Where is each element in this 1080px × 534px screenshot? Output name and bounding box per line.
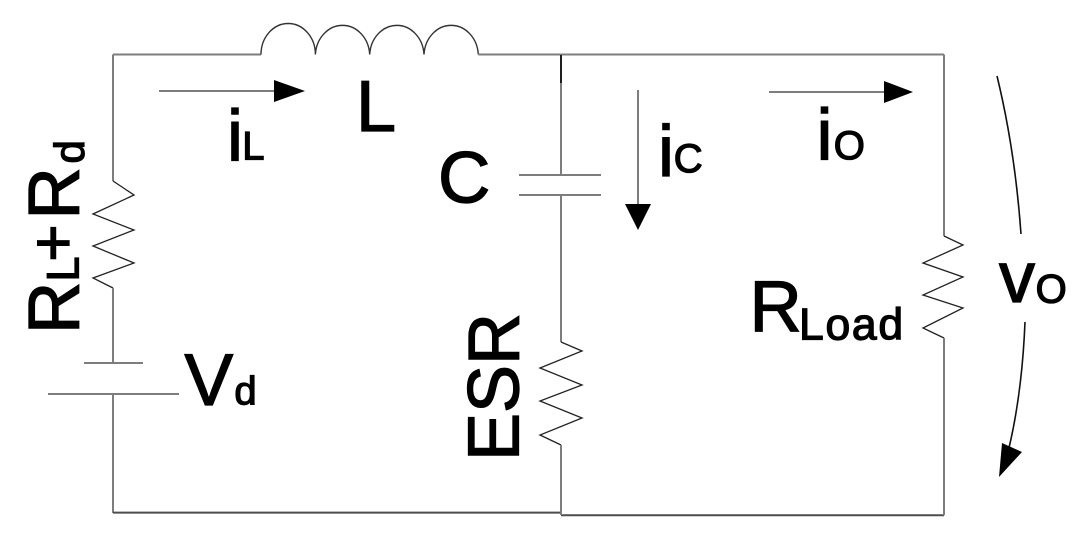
current arrow iC shaft (637, 90, 639, 206)
wire left vertical lower (112, 394, 114, 513)
label RL+Rd rotated (14, 140, 95, 334)
wire left vertical upper (112, 55, 114, 182)
svg-text:i: i (817, 96, 833, 176)
current arrow iO head (884, 81, 913, 103)
svg-text:L: L (356, 67, 396, 147)
resistor RLoad zigzag (923, 236, 963, 338)
svg-text:d: d (234, 370, 256, 414)
svg-text:C: C (438, 138, 490, 219)
current arrow iL head (274, 80, 305, 102)
wire middle vertical (cap to ESR) (560, 195, 562, 342)
wire bottom horizontal right (561, 514, 944, 516)
wire right vertical upper (943, 55, 945, 237)
svg-text:ESR: ESR (455, 313, 535, 461)
current arrow iL shaft (159, 90, 276, 92)
wire middle vertical upper (to capacitor) (560, 55, 562, 176)
svg-text:V: V (185, 340, 234, 421)
battery Vd bottom plate (48, 393, 179, 395)
wire middle vertical upper dark segment (560, 55, 562, 83)
current arrow iC head (625, 204, 651, 230)
resistor ESR zigzag (540, 342, 582, 445)
wire left vertical middle (112, 288, 114, 363)
svg-text:i: i (227, 97, 243, 177)
svg-text:d: d (46, 140, 93, 163)
svg-text:O: O (1036, 268, 1067, 312)
svg-text:L: L (242, 125, 264, 169)
svg-text:Load: Load (799, 301, 905, 350)
svg-text:C: C (674, 137, 703, 181)
vO polarity curve lower with arrow (1008, 322, 1025, 452)
svg-text:R: R (14, 167, 95, 219)
wire right vertical lower (943, 338, 945, 515)
vO polarity curve upper (997, 76, 1021, 234)
svg-text:O: O (834, 124, 865, 168)
battery Vd top plate (84, 362, 143, 364)
wire middle vertical lower (560, 445, 562, 515)
svg-text:i: i (658, 112, 674, 192)
svg-text:R: R (14, 282, 95, 334)
wire top-right horizontal (478, 54, 944, 56)
wire bottom horizontal left (113, 512, 562, 514)
vO arrowhead (999, 443, 1022, 477)
wire top-left horizontal (113, 54, 261, 56)
current arrow iO shaft (769, 91, 886, 93)
svg-text:+: + (17, 224, 89, 261)
svg-text:R: R (750, 266, 802, 347)
capacitor C top plate (519, 174, 601, 176)
resistor RL+Rd zigzag (93, 181, 134, 288)
label ESR rotated (455, 313, 535, 461)
svg-text:v: v (999, 238, 1035, 318)
inductor L (4 humps) (261, 24, 478, 55)
capacitor C bottom plate (519, 194, 601, 196)
